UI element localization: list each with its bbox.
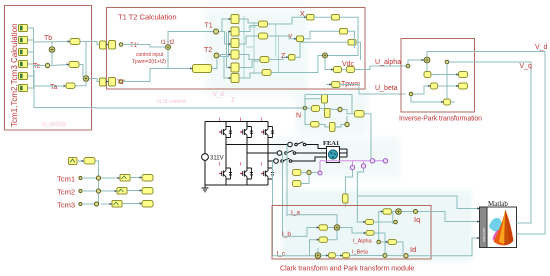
wire Tcm2 row [82,190,142,193]
svg-text:I_Beta: I_Beta [352,250,369,256]
wire Tpwm row [326,85,406,95]
gain block CC2 [343,253,350,258]
wire Vd out [427,52,545,235]
wire omega long [357,196,479,209]
svg-text:T2: T2 [204,47,212,54]
junction Tcm2 [96,189,100,193]
gain block Ta [66,83,75,89]
lookup block V3 [231,39,239,48]
wire arrowheads [64,16,480,257]
summer t1t2 [166,45,171,50]
sensor P1 [370,159,374,163]
wire C to motor [292,157,327,161]
wire S2 down [348,31,355,48]
junction T2p [119,80,123,84]
block T2p [109,78,116,87]
wire CC row [321,255,383,257]
svg-text:I_a: I_a [291,210,300,217]
N gain NH3 [311,122,320,128]
wire NT3 to NJ3 [335,116,347,127]
wire P4 omega [357,168,365,222]
wash clark area [282,190,472,262]
wire drop Ic [272,161,274,256]
breaker A [295,142,306,146]
probe block P3 [19,49,28,56]
wire A to motor [306,145,327,149]
svg-text:T1: T1 [205,23,213,30]
block T1p [109,41,116,50]
wire Tc [34,65,70,66]
module box Inverse-Park [401,39,475,113]
junction J5 [323,53,328,58]
gain block Tpwm [332,82,341,88]
svg-text:Id: Id [410,245,416,254]
gate stub C [261,118,262,122]
wire probe bus [28,28,34,88]
gain block IPA [424,72,431,78]
breaker C [281,158,292,162]
wire to T1p [80,42,109,45]
wash motor area [272,138,400,178]
svg-text:Tcm1,Tcm2,Tcm3 Calculation: Tcm1,Tcm2,Tcm3 Calculation [10,23,19,127]
junction IQ2J [394,220,398,224]
gain block CB2 [319,237,328,242]
wire V4 to M3 [239,55,260,60]
wire Vdc row [342,66,406,70]
wire X to S1 [314,16,332,18]
junction NJ3 [345,122,349,126]
svg-text:SIMULINK: SIMULINK [482,228,486,242]
carrier source block [69,158,78,165]
summer S2 [83,76,89,82]
dc source 311V [202,122,224,186]
gate stub C2 [261,162,262,166]
sensor gain blocks pair [293,170,302,187]
wire JC stub [317,248,319,253]
wire CB1 to JA [328,227,335,229]
svg-text:Ta: Ta [50,84,58,91]
block T1pre [100,41,107,49]
junction Ualpha [406,64,410,68]
gain block IQ1 [383,209,392,215]
wire NJ2 to NH2 [305,95,355,114]
wire M4 to J5 [271,56,322,73]
N gain NH1 [312,106,320,112]
wire Tb [34,41,71,44]
matlab output pins [517,223,519,234]
svg-text:Tb: Tb [44,35,52,42]
wire B to motor [296,152,327,154]
wire V3 to M2 [239,36,259,44]
inverter top rail [205,121,268,123]
wire IPB out [438,85,459,87]
gate block Tcm3 [142,201,153,208]
wire Ib row [283,228,320,237]
svg-text:N: N [296,113,301,120]
carrier gain block [84,158,95,165]
wire CBeta on [374,233,404,256]
wire IQ2 out [374,221,398,223]
gain block Vdc1 [334,67,342,73]
wire P3 to speed block [346,170,353,194]
wire fan T2 to col2 [220,32,232,79]
junction IDJ [404,254,408,258]
igbt Q3 [240,127,253,138]
wire IPK1 down [426,63,428,72]
svg-text:t1 t2 control: t1 t2 control [157,99,186,105]
sensor P4 [361,161,365,168]
control block [193,65,212,73]
svg-text:U_alpha: U_alpha [375,59,401,66]
sensor P2 [383,159,387,163]
wire J5 to Vdc blocks [325,58,334,70]
wire phase B [247,152,277,154]
svg-text:Tc: Tc [33,63,41,70]
svg-text:U_dc03a: U_dc03a [42,122,67,128]
wire drop Ia [286,145,288,217]
gain block IPW1 [459,72,468,78]
svg-text:U_beta: U_beta [375,85,398,92]
wire carrier [77,161,99,204]
wash N cluster [296,90,368,136]
ground [202,185,209,192]
junction NJ2 [338,107,342,111]
svg-text:Iq: Iq [414,215,420,224]
wire phase A [226,144,288,146]
wire Tcm3 row [82,203,142,206]
probe block P2 [19,37,28,44]
gain block M4 [262,70,271,76]
wire NH2 out [364,114,371,159]
svg-text:Inverse-Park transformation: Inverse-Park transformation [399,116,482,123]
probe block P4 [19,61,28,68]
wire CB2 loop [310,230,338,255]
node Tcm2 [79,189,82,192]
lookup block V5 [231,63,239,72]
stair block S2 [340,29,348,35]
wire S1 down [328,17,358,55]
gain block Alpha [366,231,374,236]
probe block P5 [19,73,28,80]
gain block Vdc2 [347,67,355,73]
summer JA [334,225,340,231]
ammeter C [274,159,279,164]
junction Tcm1 [96,176,100,180]
probe block P1 [19,25,28,32]
matlab sfunction block [480,207,517,248]
junction N [303,106,307,110]
lookup block V4 [231,50,239,59]
wire Ia row [287,215,337,225]
gate stub B [240,118,241,122]
gate block Tcm1 [142,175,153,182]
wire S2 to T2p [89,79,109,82]
igbt Q6 [240,168,253,179]
svg-text:Tpwm=2(t1+t2): Tpwm=2(t1+t2) [132,59,166,65]
wire sensor pair [301,173,318,184]
speed tall block [343,194,349,203]
gain block CB1 [319,225,328,230]
wire IPA out [431,74,459,76]
igbt Q1 [219,127,232,138]
comparator Tcm3 [112,201,122,208]
wire phase C [268,160,274,162]
wire fan T1 to col1 [220,19,232,68]
lookup block V1 [231,15,239,24]
module box Clark Park [272,206,431,260]
svg-text:I_c: I_c [277,251,286,258]
wire Z to S3 [295,42,348,57]
svg-text:T2': T2' [117,80,125,86]
motor FEA1 [327,147,340,163]
gain block IPW2 [459,83,468,89]
igbt Q2 [261,168,274,179]
wire NH1 [307,108,338,110]
wire V2 to M1 [239,26,259,32]
wire S1 vertical [51,42,53,65]
wire into S2 [75,42,86,86]
svg-text:V_d: V_d [213,92,224,98]
svg-text:T1 T2 Calculation: T1 T2 Calculation [118,13,177,22]
block T2pre [100,78,107,86]
svg-text:Tcm2: Tcm2 [57,188,75,197]
inverter bottom rail [205,184,268,186]
wire ID row [381,242,404,254]
gate stub A [219,118,220,122]
wire Tcm1 row [82,177,142,180]
wire NH3 to NT3 [319,125,330,128]
gain block ID1 [388,240,397,245]
wire drop Ib [282,153,284,236]
N cluster tall block NT1 [322,95,328,104]
gate stub A2 [219,162,220,166]
wire shaft purple [320,161,386,171]
wire summer to T1 [168,32,214,45]
gate block Tcm2 [142,188,153,195]
stair block S1 [332,15,340,21]
N tall NT3 [330,123,336,132]
svg-text:Tcm3: Tcm3 [57,201,75,210]
wire Id out [408,238,479,256]
svg-text:I_b: I_b [282,231,291,238]
gain block IPE [444,99,451,105]
inverter leg B [246,122,248,186]
wire V6 to M4 [239,73,262,78]
wire JA out [340,228,366,234]
junction T1p [119,43,123,47]
gain block M3 [260,57,269,63]
summer IPK1 [424,57,430,63]
gain block IPB [431,83,438,89]
wire Vq out [447,62,531,223]
wash middle cluster [206,9,308,95]
inverter leg A [225,122,227,186]
matlab logo [489,210,513,246]
junction T2 [214,53,219,58]
summer cross marks [50,46,428,258]
wire V5 to M3 [239,61,260,68]
svg-text:311V: 311V [210,156,224,162]
motor output stubs [340,149,348,157]
junction Tcm3 [94,202,98,206]
junction ID1J [377,240,381,244]
svg-text:FEA1: FEA1 [323,140,339,147]
wire N long [34,70,303,108]
gain block CC1 [328,253,335,258]
sensor circle SC [318,171,322,175]
wire S3 down [356,42,361,60]
inverter leg C [267,122,269,186]
igbt Q5 [261,127,274,138]
gain block M2 [259,33,268,39]
svg-text:Clark transform and Park trans: Clark transform and Park transform modul… [280,266,414,273]
summer S1 [49,47,55,53]
svg-text:T1': T1' [130,43,138,49]
node Tcm3 [79,202,82,205]
module box Tcm Calculation [5,6,92,131]
comparator Tcm2 [117,188,127,195]
svg-text:Z: Z [231,98,235,104]
module box T1 T2 Calculation [107,8,366,90]
svg-text:I_Alpha: I_Alpha [353,239,373,245]
node Z [289,55,296,61]
wire T2p to control [123,69,193,82]
node Y [297,36,304,42]
svg-text:Tcm1: Tcm1 [57,175,75,184]
wire IQ row [379,212,480,222]
igbt Q4 [219,168,232,179]
wire Ualpha up [408,60,424,64]
N cluster wires top [305,95,325,125]
node X [307,15,315,21]
ammeter A [288,142,293,147]
wire Ta [34,85,67,87]
wire summer down [167,50,169,69]
node Tcm1 [79,176,82,179]
wire M3 to Z [269,57,289,59]
junction Vq [445,60,449,64]
wire IPE out [451,101,456,103]
summer IQS [396,209,402,215]
junction T1 [214,29,219,34]
probe block P6 [19,85,28,92]
junction CBeta [383,254,387,258]
wire Ubeta path [413,86,431,94]
junction sensor [307,170,311,174]
N gain NH2 [355,111,365,118]
wire Y to S2 [304,31,340,39]
gain block Tb [70,39,80,45]
wire M1 to X [268,17,307,24]
gain block Tc [69,62,79,68]
wire M2 to Y [268,36,297,39]
vertical bus iq [379,212,393,243]
ammeter B [277,151,282,156]
junction Tc [45,63,49,67]
junction IQJ [414,210,418,214]
gain block M1 [259,21,268,27]
svg-text:V_d: V_d [535,44,548,51]
gate stub B2 [240,162,241,166]
wire Ubeta down [411,96,444,102]
wire T1p to summer [123,45,166,48]
stair block S3 [348,40,356,46]
comparator Tcm1 [120,175,130,182]
lookup block V6 [231,74,239,83]
N tall NT2 [325,109,331,118]
matlab input pins [479,209,480,239]
svg-text:V_q: V_q [520,63,533,70]
wire V1 to M1 [239,19,259,23]
wire speed block down [345,203,347,207]
summer JC [315,253,321,259]
junction Ubeta [409,92,413,96]
wire control to T2 [212,59,218,68]
wire Ic row [273,255,316,257]
sensor P3 [350,161,354,170]
gain block IQ2 [366,220,374,225]
lookup block V2 [231,27,239,36]
wire mesh verticals [244,16,279,78]
svg-text:control input: control input [136,52,164,58]
breaker B [285,150,296,154]
